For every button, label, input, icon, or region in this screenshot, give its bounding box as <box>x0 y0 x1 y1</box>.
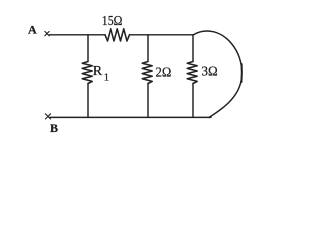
wire <box>130 34 194 36</box>
node A <box>45 31 49 35</box>
svg-text:15Ω: 15Ω <box>102 14 123 29</box>
resistor R1 <box>82 62 92 84</box>
wire <box>87 84 89 118</box>
wire <box>87 35 89 62</box>
wire <box>192 35 194 62</box>
wire <box>192 84 194 118</box>
svg-text:A: A <box>28 23 37 37</box>
resistor 15 ohm <box>105 29 130 41</box>
wire <box>147 84 149 118</box>
wire arc thick right edge <box>240 64 243 82</box>
svg-text:1: 1 <box>104 72 109 83</box>
wire <box>50 116 211 118</box>
node B <box>45 114 50 119</box>
wire <box>147 35 149 62</box>
resistor 2 ohm <box>142 62 152 84</box>
wire <box>50 34 106 36</box>
wire arc <box>194 31 242 117</box>
svg-text:2Ω: 2Ω <box>156 66 172 81</box>
svg-text:R: R <box>93 64 103 79</box>
svg-text:B: B <box>50 121 58 135</box>
resistor 3 ohm <box>187 62 197 84</box>
svg-text:3Ω: 3Ω <box>202 65 218 80</box>
